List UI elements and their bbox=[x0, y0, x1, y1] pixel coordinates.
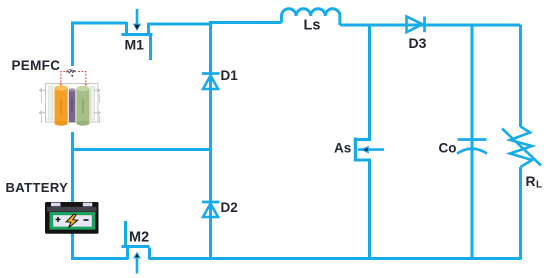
wire: Co branch vertical bbox=[471, 24, 474, 260]
plus sign bbox=[56, 217, 61, 222]
wire: bottom rail left of M2 bbox=[73, 257, 129, 260]
tiny side text marks bbox=[41, 94, 42, 103]
PEMFC fuel cell image bbox=[40, 70, 101, 126]
diode D3 bbox=[407, 17, 427, 52]
svg-text:D2: D2 bbox=[221, 200, 238, 215]
container box bbox=[46, 84, 99, 123]
wire: bottom rail right of M2 bbox=[149, 257, 521, 260]
wire: top rail from junction to inductor bbox=[209, 21, 282, 24]
svg-text:M2: M2 bbox=[129, 230, 149, 246]
resistor RL (rheostat) bbox=[502, 127, 542, 191]
diode D2 bbox=[202, 200, 238, 217]
side arrows left bbox=[40, 88, 47, 92]
wire: right rail upper bbox=[519, 25, 522, 127]
svg-text:L: L bbox=[536, 180, 542, 191]
wire: As branch vertical top bbox=[368, 24, 371, 142]
transistor M1 bbox=[122, 9, 153, 60]
wire: left rail lower (PEMFC bottom to bottom rail corner) bbox=[71, 132, 74, 260]
minus sign bbox=[84, 219, 89, 221]
wire: top rail from inductor to right corner bbox=[340, 24, 521, 27]
wire: D branch vertical (x=210) bbox=[209, 22, 212, 259]
wire: As branch vertical bottom bbox=[368, 160, 371, 260]
lightning bolt bbox=[66, 214, 77, 228]
diode D1 bbox=[202, 68, 238, 89]
svg-text:M1: M1 bbox=[125, 37, 145, 53]
inductor Ls bbox=[282, 9, 340, 34]
wire: left rail top segment with top-left corner bbox=[73, 23, 128, 66]
orange cylinder bbox=[55, 88, 68, 124]
capacitor Co bbox=[439, 140, 488, 156]
svg-text:D3: D3 bbox=[409, 35, 427, 51]
wire: horizontal connector between rails bbox=[73, 148, 211, 151]
svg-text:D1: D1 bbox=[221, 68, 239, 83]
wire: right rail lower bbox=[519, 167, 522, 260]
wire: top rail from M1 to inductor bbox=[149, 23, 211, 26]
svg-text:BATTERY: BATTERY bbox=[6, 180, 69, 195]
svg-text:Ls: Ls bbox=[304, 18, 321, 34]
svg-text:Co: Co bbox=[439, 141, 457, 156]
tiny load scribble bbox=[66, 70, 76, 73]
svg-text:R: R bbox=[526, 173, 536, 189]
purple cylinder bbox=[69, 90, 76, 123]
transistor M2 bbox=[122, 221, 150, 274]
side arrows right bbox=[94, 88, 101, 92]
transistor As bbox=[334, 138, 384, 162]
red dashed external circuit bbox=[61, 72, 66, 86]
green cylinder bbox=[76, 88, 89, 124]
svg-text:PEMFC: PEMFC bbox=[12, 58, 61, 73]
battery icon bbox=[45, 202, 99, 234]
svg-text:As: As bbox=[334, 141, 351, 156]
